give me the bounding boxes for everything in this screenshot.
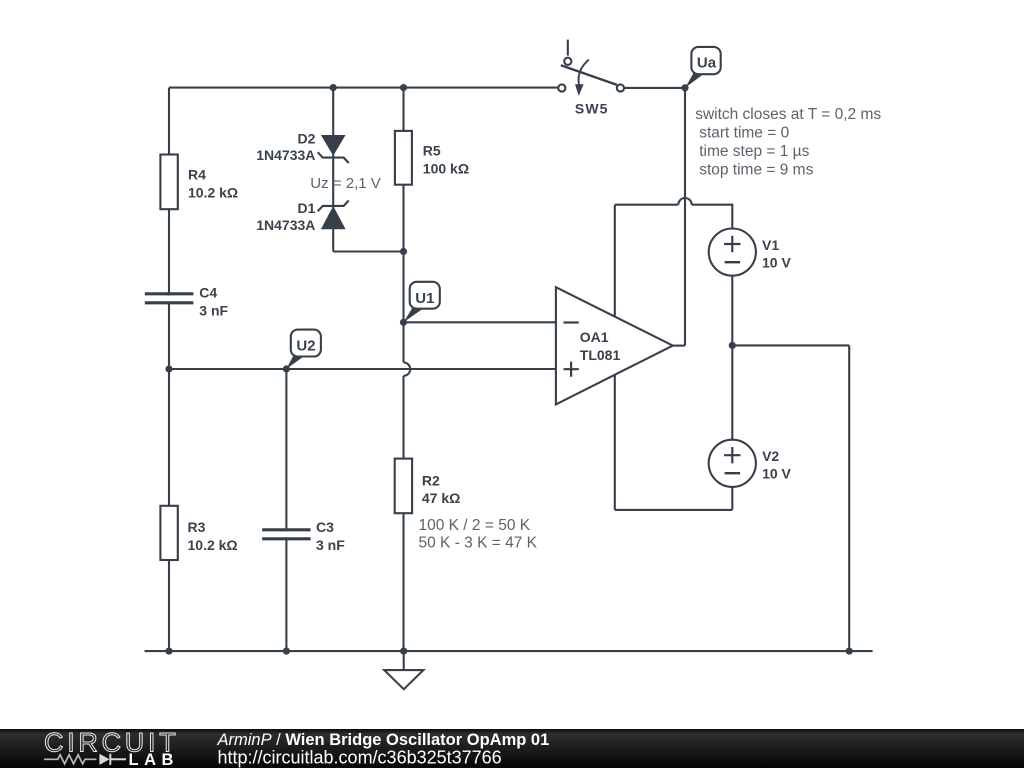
voltage source V1 bbox=[709, 229, 792, 276]
svg-text:http://circuitlab.com/c36b325t: http://circuitlab.com/c36b325t37766 bbox=[218, 747, 502, 767]
svg-text:D2: D2 bbox=[297, 131, 315, 147]
node label Ua bbox=[685, 47, 721, 88]
node label U2 bbox=[286, 330, 321, 369]
node: U2 junction bbox=[283, 365, 290, 372]
svg-text:R2: R2 bbox=[422, 472, 440, 488]
wire: ground rail bbox=[145, 650, 873, 652]
svg-text:switch closes at T = 0,2 ms: switch closes at T = 0,2 ms bbox=[695, 106, 881, 123]
wire: zener chain column (D2/D1) bbox=[332, 88, 334, 252]
svg-text:LAB: LAB bbox=[129, 751, 179, 768]
svg-text:50 K - 3 K = 47 K: 50 K - 3 K = 47 K bbox=[419, 534, 538, 551]
svg-text:SW5: SW5 bbox=[575, 100, 609, 116]
wire: mid rail to non-inverting input bbox=[169, 368, 556, 370]
wire: V- rail bbox=[615, 509, 733, 511]
resistor R5 bbox=[395, 131, 469, 185]
wire: R5/R2 column upper segment bbox=[402, 88, 404, 363]
node: supply midpoint junction bbox=[729, 342, 736, 349]
node: output Ua junction bbox=[681, 84, 688, 91]
svg-text:10 V: 10 V bbox=[762, 466, 791, 482]
svg-text:10.2 kΩ: 10.2 kΩ bbox=[188, 537, 238, 553]
svg-text:10 V: 10 V bbox=[762, 255, 791, 271]
svg-text:C3: C3 bbox=[316, 519, 334, 535]
resistor R2 bbox=[395, 459, 461, 514]
svg-text:stop time = 9 ms: stop time = 9 ms bbox=[699, 162, 813, 179]
wire: D1 bottom to R5 bottom connector bbox=[333, 250, 403, 252]
svg-text:OA1: OA1 bbox=[580, 329, 609, 345]
voltage source V2 bbox=[709, 440, 792, 487]
annotation: switch timing text block bbox=[695, 106, 881, 179]
svg-text:100 K / 2 = 50 K: 100 K / 2 = 50 K bbox=[419, 517, 531, 534]
wire: right rail vertical to ground rail bbox=[848, 345, 850, 651]
svg-text:U2: U2 bbox=[296, 338, 315, 355]
footer bar bbox=[0, 729, 1024, 768]
svg-text:100 kΩ: 100 kΩ bbox=[423, 161, 469, 177]
svg-text:D1: D1 bbox=[297, 200, 315, 216]
resistor R3 bbox=[160, 506, 237, 560]
svg-text:Ua: Ua bbox=[697, 55, 717, 72]
svg-text:10.2 kΩ: 10.2 kΩ bbox=[188, 184, 238, 200]
wire: V+ rail right segment to V1 bbox=[692, 205, 733, 229]
svg-text:Uz = 2,1 V: Uz = 2,1 V bbox=[310, 175, 380, 192]
wire: op-amp V+ pin bbox=[614, 205, 616, 317]
node: ground rail / left column junction bbox=[165, 648, 172, 655]
node: top rail / R5 column junction bbox=[400, 84, 407, 91]
svg-text:R4: R4 bbox=[188, 167, 206, 183]
node: ground rail / right rail junction bbox=[846, 648, 853, 655]
wire: hop of V+ rail over output column bbox=[678, 198, 691, 205]
svg-text:3 nF: 3 nF bbox=[316, 537, 345, 553]
node: D1/R5 bottom junction bbox=[400, 248, 407, 255]
node: ground rail / C3 column junction bbox=[283, 648, 290, 655]
svg-text:1N4733A: 1N4733A bbox=[256, 147, 315, 163]
svg-text:3 nF: 3 nF bbox=[199, 302, 228, 318]
wire: inverting input from U1 node to op-amp bbox=[404, 321, 556, 323]
wire: U2/C3 column vertical bbox=[285, 369, 287, 651]
wire: V+ rail left segment bbox=[615, 204, 679, 206]
svg-text:R5: R5 bbox=[423, 143, 441, 159]
wire: V1 bottom to V2 top bbox=[731, 276, 733, 440]
resistor R4 bbox=[160, 155, 238, 210]
node: top rail / zener column junction bbox=[330, 84, 337, 91]
capacitor C4 bbox=[145, 285, 229, 319]
svg-text:V2: V2 bbox=[762, 448, 779, 464]
zener diode D1 bbox=[256, 200, 348, 233]
wire: switch right terminal to output node Ua bbox=[624, 87, 685, 89]
svg-text:TL081: TL081 bbox=[580, 347, 621, 363]
svg-text:47 kΩ: 47 kΩ bbox=[422, 490, 460, 506]
wire: supply midpoint to right rail bbox=[732, 344, 849, 346]
ground bbox=[384, 651, 423, 689]
wire: R4/C4/R3 left column vertical bbox=[168, 88, 170, 652]
wire: hop of R5/R2 column over mid rail bbox=[404, 362, 411, 375]
svg-text:time step = 1 µs: time step = 1 µs bbox=[699, 143, 809, 160]
svg-text:U1: U1 bbox=[415, 290, 434, 307]
wire: op-amp V- pin bbox=[614, 375, 616, 510]
node: U1 junction bbox=[400, 319, 407, 326]
capacitor C3 bbox=[262, 519, 345, 553]
svg-text:C4: C4 bbox=[199, 285, 217, 301]
zener diode D2 bbox=[256, 131, 348, 164]
footer CircuitLab logo bbox=[44, 728, 179, 768]
svg-text:1N4733A: 1N4733A bbox=[256, 217, 315, 233]
wire: R5/R2 column lower segment bbox=[402, 376, 404, 651]
svg-text:ArminP / Wien Bridge Oscillato: ArminP / Wien Bridge Oscillator OpAmp 01 bbox=[217, 731, 550, 749]
wire: V2 bottom lead bbox=[731, 487, 733, 510]
svg-text:V1: V1 bbox=[762, 237, 779, 253]
svg-text:R3: R3 bbox=[188, 519, 206, 535]
node: mid rail / left column junction bbox=[165, 365, 172, 372]
node: ground rail / R2 column junction bbox=[400, 648, 407, 655]
op-amp OA1 TL081 bbox=[556, 287, 673, 404]
wire: top rail from R4 column to switch left terminal bbox=[169, 87, 558, 89]
node label U1 bbox=[404, 282, 440, 323]
wire: op-amp output stub bbox=[673, 345, 685, 347]
svg-text:start time = 0: start time = 0 bbox=[699, 125, 789, 142]
wire: output column from Ua node down to op-amp output bbox=[684, 88, 686, 346]
switch SW5 bbox=[558, 40, 624, 117]
